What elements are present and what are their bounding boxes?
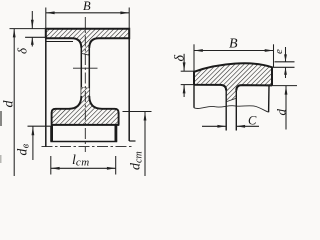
dimension d_v (shaft bore diameter) bbox=[28, 125, 52, 127]
bore bottom edge bbox=[50, 141, 117, 143]
silhouette foot tick bbox=[129, 140, 135, 142]
dimension C (web stub thickness) bbox=[202, 125, 226, 127]
web stub right edge bbox=[235, 91, 237, 131]
dimension delta (right figure) bbox=[181, 70, 194, 72]
vertical centerline bbox=[84, 17, 86, 152]
dimension B (right figure) bbox=[193, 44, 195, 71]
dimension d (left figure, overall diameter) bbox=[10, 28, 46, 30]
web right edge bbox=[88, 48, 90, 97]
bore right thick edge bbox=[115, 126, 118, 142]
dimension delta (left figure, rim thickness) bbox=[25, 36, 46, 38]
web stub left edge bbox=[225, 91, 227, 131]
web bottom hatch break line bbox=[81, 87, 89, 90]
dimension B (left figure) bbox=[45, 8, 47, 30]
dimension d_st (hub diameter) bbox=[123, 111, 152, 113]
bore left thick edge bbox=[50, 126, 53, 142]
rim outline bbox=[46, 29, 129, 48]
scan smudge left edge bbox=[0, 111, 2, 126]
hub outline bbox=[52, 96, 119, 125]
svg-text:B: B bbox=[83, 0, 91, 13]
svg-text:е: е bbox=[273, 49, 285, 54]
web left edge bbox=[80, 48, 82, 97]
horizontal axis centerline bbox=[42, 146, 134, 148]
stub hatch break line bbox=[226, 98, 236, 102]
hub bottom edge bbox=[51, 124, 119, 126]
rim outline bbox=[194, 63, 272, 90]
rim inner edge line bbox=[46, 41, 73, 43]
web top hatch break line bbox=[81, 53, 89, 55]
body right edge below rim bbox=[268, 86, 270, 113]
wavy break line bbox=[194, 106, 269, 113]
svg-text:d: d bbox=[2, 100, 17, 108]
svg-text:B: B bbox=[229, 37, 238, 52]
body left edge below rim bbox=[193, 85, 195, 108]
svg-text:δ: δ bbox=[173, 55, 188, 62]
dimension d (right figure) bbox=[266, 85, 297, 87]
right outer silhouette line bbox=[128, 38, 130, 142]
dimension l_st (hub length) bbox=[50, 156, 52, 175]
hub hatched section with web bottom bbox=[52, 88, 119, 125]
rim (top flange) hatched section bbox=[46, 29, 129, 55]
dimension e (crown height) bbox=[275, 61, 295, 63]
svg-text:δ: δ bbox=[15, 47, 30, 54]
svg-text:C: C bbox=[248, 114, 257, 128]
svg-text:d: d bbox=[274, 109, 289, 116]
rim hatched section with web stub bbox=[194, 63, 272, 101]
web center tick bbox=[73, 67, 98, 69]
left outer silhouette line bbox=[45, 38, 47, 148]
